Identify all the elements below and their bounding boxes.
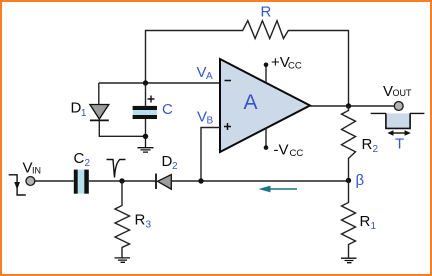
ground below C xyxy=(138,136,154,152)
svg-text:β: β xyxy=(356,172,365,189)
wire: op-amp output to VOUT xyxy=(310,105,394,107)
spike waveform symbol xyxy=(107,160,126,178)
svg-text:A: A xyxy=(244,91,258,114)
svg-text:IN: IN xyxy=(32,166,41,176)
diode D2 xyxy=(155,174,157,190)
junction C bottom xyxy=(143,134,148,139)
svg-text:R: R xyxy=(362,136,373,153)
svg-text:3: 3 xyxy=(146,220,152,231)
wire: D1 branch vertical xyxy=(98,83,100,105)
terminal VOUT xyxy=(394,102,403,111)
op-amp minus input sign xyxy=(225,80,232,82)
svg-text:D: D xyxy=(71,100,82,117)
svg-text:C: C xyxy=(162,101,173,118)
wire: C2 to input node xyxy=(89,180,156,182)
junction input node xyxy=(119,178,124,183)
svg-text:D: D xyxy=(162,153,173,170)
resistor R1 xyxy=(342,181,356,259)
-VCC supply stub xyxy=(265,128,267,147)
lamp T adjust arrow xyxy=(392,132,405,134)
+VCC supply stub xyxy=(265,65,267,83)
wire: D2 to VB node xyxy=(171,180,201,182)
wire: D1 to bottom rail xyxy=(99,120,145,136)
svg-text:V: V xyxy=(197,64,207,81)
resistor R3 xyxy=(115,181,130,258)
svg-text:2: 2 xyxy=(85,158,91,169)
svg-text:C: C xyxy=(74,150,85,167)
feedback direction arrow xyxy=(269,188,297,190)
svg-text:OUT: OUT xyxy=(393,88,413,98)
svg-text:CC: CC xyxy=(290,148,304,159)
svg-text:CC: CC xyxy=(288,61,302,72)
wire: top feedback loop with resistor R xyxy=(146,21,349,106)
wire: beta feedback rail xyxy=(201,180,349,182)
VIN step waveform symbol xyxy=(9,175,26,195)
svg-text:1: 1 xyxy=(371,221,377,232)
junction VB bottom node xyxy=(198,178,203,183)
svg-text:V: V xyxy=(197,109,207,126)
ground below R3 xyxy=(115,258,131,262)
ground below R1 xyxy=(341,258,357,263)
svg-text:+V: +V xyxy=(271,54,290,71)
svg-text:1: 1 xyxy=(81,108,87,119)
lamp T symbol xyxy=(386,113,410,128)
svg-text:R: R xyxy=(360,213,371,230)
svg-text:V: V xyxy=(23,160,33,177)
wire: VA input wire (node VA) xyxy=(99,82,221,84)
wire: VIN to C2 xyxy=(35,180,74,182)
resistor R2 xyxy=(342,106,356,181)
terminal VIN xyxy=(26,177,35,186)
svg-text:R: R xyxy=(261,4,272,21)
wire: VB input from feedback node xyxy=(201,128,220,182)
op-amp plus input sign xyxy=(224,123,231,130)
C polarity plus xyxy=(148,96,155,103)
junction output node xyxy=(346,103,351,108)
svg-text:T: T xyxy=(395,136,404,153)
op-amp U1 (A) xyxy=(220,59,310,152)
junction VA node xyxy=(143,80,148,85)
junction beta node xyxy=(346,178,351,183)
svg-text:A: A xyxy=(206,71,213,82)
capacitor C (electrolytic) xyxy=(145,83,147,106)
diode D1 xyxy=(90,105,109,120)
svg-text:V: V xyxy=(383,83,393,100)
svg-text:2: 2 xyxy=(373,144,379,155)
capacitor C2 xyxy=(78,170,85,194)
svg-text:-V: -V xyxy=(274,142,289,159)
svg-text:B: B xyxy=(207,116,214,127)
svg-text:2: 2 xyxy=(172,161,178,172)
svg-text:R: R xyxy=(135,212,146,229)
